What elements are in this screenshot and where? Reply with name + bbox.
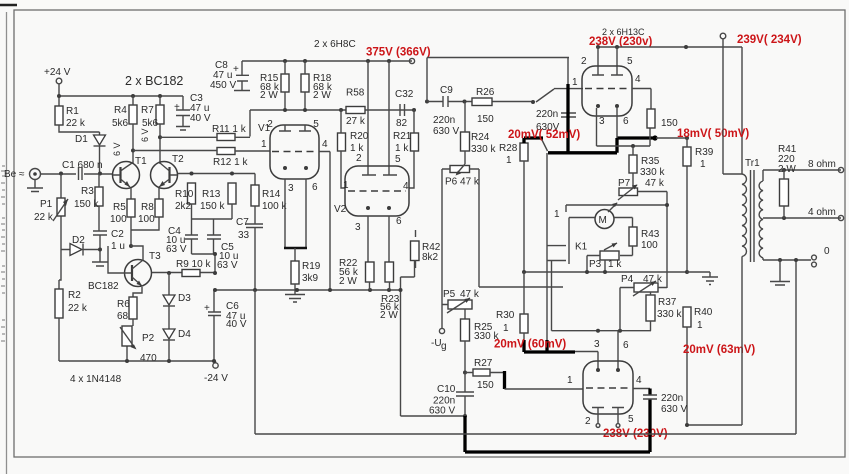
svg-text:100: 100 <box>110 214 127 225</box>
svg-text:2 W: 2 W <box>380 310 398 321</box>
svg-text:2: 2 <box>581 56 587 67</box>
svg-text:R39: R39 <box>695 147 714 158</box>
svg-text:100: 100 <box>641 240 658 251</box>
svg-text:R8: R8 <box>141 202 154 213</box>
svg-text:2 W: 2 W <box>778 164 796 175</box>
svg-text:5k6: 5k6 <box>112 118 129 129</box>
svg-text:22 k: 22 k <box>68 303 88 314</box>
svg-text:4: 4 <box>636 375 642 386</box>
svg-text:C10: C10 <box>437 384 456 395</box>
svg-text:-24 V: -24 V <box>204 373 228 384</box>
svg-text:R5: R5 <box>113 202 126 213</box>
svg-text:R12 1 k: R12 1 k <box>213 157 248 168</box>
svg-text:+24 V: +24 V <box>44 67 71 78</box>
svg-text:330 k: 330 k <box>474 331 499 342</box>
svg-text:R2: R2 <box>68 290 81 301</box>
svg-text:R58: R58 <box>346 88 365 99</box>
svg-text:4 x 1N4148: 4 x 1N4148 <box>70 374 122 385</box>
svg-text:1: 1 <box>503 323 509 334</box>
svg-text:1: 1 <box>572 77 578 88</box>
svg-text:R24: R24 <box>471 132 490 143</box>
svg-text:M: M <box>599 215 607 226</box>
svg-text:P3: P3 <box>589 259 602 270</box>
svg-text:6: 6 <box>623 116 629 127</box>
svg-text:R20: R20 <box>350 131 369 142</box>
svg-text:8 ohm: 8 ohm <box>808 159 836 170</box>
svg-text:1: 1 <box>554 209 560 220</box>
svg-text:R14: R14 <box>262 189 281 200</box>
svg-text:6: 6 <box>623 340 629 351</box>
svg-text:5k6: 5k6 <box>142 118 159 129</box>
svg-text:C2: C2 <box>111 229 124 240</box>
svg-text:4: 4 <box>403 181 409 192</box>
svg-text:P4: P4 <box>621 274 634 285</box>
svg-text:6: 6 <box>396 216 402 227</box>
svg-text:R37: R37 <box>658 297 677 308</box>
svg-text:+: + <box>233 64 239 75</box>
svg-text:R26: R26 <box>476 87 495 98</box>
svg-text:6 V: 6 V <box>140 128 150 142</box>
svg-text:R43: R43 <box>641 229 660 240</box>
svg-text:2: 2 <box>267 119 273 130</box>
svg-text:20mV( 52mV): 20mV( 52mV) <box>508 129 580 141</box>
svg-text:2: 2 <box>356 153 362 164</box>
svg-text:C7: C7 <box>236 217 249 228</box>
svg-text:3: 3 <box>594 339 600 350</box>
svg-text:630 V: 630 V <box>433 126 459 137</box>
svg-text:1 k: 1 k <box>395 143 409 154</box>
svg-text:8k2: 8k2 <box>422 252 439 263</box>
svg-text:Tr1: Tr1 <box>745 158 760 169</box>
svg-text:T1: T1 <box>135 156 147 167</box>
svg-text:P2: P2 <box>142 333 155 344</box>
svg-text:82: 82 <box>396 118 408 129</box>
svg-text:330 k: 330 k <box>471 144 496 155</box>
svg-text:R10: R10 <box>175 189 194 200</box>
svg-text:40 V: 40 V <box>190 113 211 124</box>
svg-text:R19: R19 <box>302 261 321 272</box>
svg-text:220n: 220n <box>433 115 455 126</box>
svg-text:1: 1 <box>567 375 573 386</box>
svg-text:C32: C32 <box>395 89 414 100</box>
svg-text:D1: D1 <box>75 134 88 145</box>
svg-text:2 W: 2 W <box>339 276 357 287</box>
svg-text:P6 47 k: P6 47 k <box>445 177 480 188</box>
svg-text:R21: R21 <box>393 131 412 142</box>
svg-text:1: 1 <box>506 155 512 166</box>
svg-text:R1: R1 <box>66 106 79 117</box>
svg-text:4: 4 <box>635 74 641 85</box>
svg-text:K1: K1 <box>575 242 588 253</box>
svg-text:150: 150 <box>661 118 678 129</box>
svg-text:P5: P5 <box>443 289 456 300</box>
svg-text:T2: T2 <box>172 154 184 165</box>
svg-text:R28: R28 <box>499 143 518 154</box>
svg-text:V2: V2 <box>334 204 347 215</box>
svg-text:2: 2 <box>585 416 591 427</box>
svg-text:33: 33 <box>238 230 250 241</box>
svg-text:R7: R7 <box>141 105 154 116</box>
svg-text:330 k: 330 k <box>640 167 665 178</box>
svg-text:22 k: 22 k <box>34 212 54 223</box>
svg-text:R40: R40 <box>694 307 713 318</box>
svg-text:3k9: 3k9 <box>302 273 319 284</box>
svg-text:5: 5 <box>628 414 634 425</box>
svg-text:5: 5 <box>313 119 319 130</box>
svg-text:2 W: 2 W <box>260 90 278 101</box>
svg-text:6: 6 <box>312 182 318 193</box>
svg-text:630 V: 630 V <box>429 406 455 417</box>
svg-text:470: 470 <box>140 353 157 364</box>
svg-text:1: 1 <box>697 320 703 331</box>
svg-text:P1: P1 <box>40 199 53 210</box>
svg-text:-U: -U <box>431 338 442 349</box>
svg-text:D3: D3 <box>178 293 191 304</box>
svg-text:P7: P7 <box>618 178 631 189</box>
svg-text:40 V: 40 V <box>226 319 247 330</box>
svg-text:2k2: 2k2 <box>175 201 192 212</box>
svg-text:150 k: 150 k <box>74 199 99 210</box>
svg-text:1: 1 <box>261 139 267 150</box>
svg-text:3: 3 <box>599 116 605 127</box>
svg-text:47 k: 47 k <box>645 178 665 189</box>
svg-text:20mV (63mV): 20mV (63mV) <box>683 344 755 356</box>
svg-text:68: 68 <box>117 311 129 322</box>
svg-text:C9: C9 <box>440 85 453 96</box>
svg-text:4 ohm: 4 ohm <box>808 207 836 218</box>
svg-text:R9 10 k: R9 10 k <box>176 259 211 270</box>
svg-text:27 k: 27 k <box>346 116 366 127</box>
svg-text:239V( 234V): 239V( 234V) <box>737 34 802 46</box>
svg-text:1 k: 1 k <box>608 259 622 270</box>
svg-text:18mV( 50mV): 18mV( 50mV) <box>677 128 749 140</box>
svg-text:Be ≈: Be ≈ <box>4 169 25 180</box>
svg-text:R6: R6 <box>117 299 130 310</box>
svg-text:1: 1 <box>343 180 349 191</box>
svg-text:3: 3 <box>355 222 361 233</box>
svg-text:20mV (60mV): 20mV (60mV) <box>494 339 566 351</box>
svg-text:4: 4 <box>322 139 328 150</box>
svg-text:63 V: 63 V <box>217 260 238 271</box>
svg-text:0: 0 <box>824 246 830 257</box>
svg-text:330 k: 330 k <box>657 309 682 320</box>
svg-text:R4: R4 <box>114 105 127 116</box>
svg-text:2 W: 2 W <box>313 90 331 101</box>
svg-text:2 x 6H8C: 2 x 6H8C <box>314 39 356 50</box>
svg-text:22 k: 22 k <box>66 118 86 129</box>
svg-text:6 V: 6 V <box>112 142 122 156</box>
svg-text:3: 3 <box>288 183 294 194</box>
svg-text:R27: R27 <box>474 358 493 369</box>
svg-text:150: 150 <box>477 380 494 391</box>
svg-text:R13: R13 <box>202 189 221 200</box>
svg-text:R30: R30 <box>496 310 515 321</box>
svg-text:2 x BC182: 2 x BC182 <box>125 74 183 88</box>
svg-text:R3: R3 <box>81 186 94 197</box>
svg-text:R35: R35 <box>641 156 660 167</box>
svg-text:BC182: BC182 <box>88 281 119 292</box>
svg-text:630 V: 630 V <box>661 404 687 415</box>
svg-text:T3: T3 <box>149 251 161 262</box>
svg-text:63 V: 63 V <box>166 244 187 255</box>
svg-text:5: 5 <box>627 56 633 67</box>
svg-text:100 k: 100 k <box>262 201 287 212</box>
svg-text:5: 5 <box>395 154 401 165</box>
svg-text:+: + <box>174 102 180 113</box>
svg-text:150: 150 <box>477 114 494 125</box>
svg-text:450 V: 450 V <box>210 80 236 91</box>
svg-text:220n: 220n <box>536 109 558 120</box>
svg-text:100: 100 <box>138 214 155 225</box>
svg-text:D4: D4 <box>178 329 191 340</box>
svg-text:150 k: 150 k <box>200 201 225 212</box>
svg-text:375V (366V): 375V (366V) <box>366 47 431 59</box>
svg-text:1: 1 <box>700 159 706 170</box>
svg-text:g: g <box>441 341 447 352</box>
svg-text:220n: 220n <box>661 393 683 404</box>
svg-text:1 u: 1 u <box>111 241 125 252</box>
